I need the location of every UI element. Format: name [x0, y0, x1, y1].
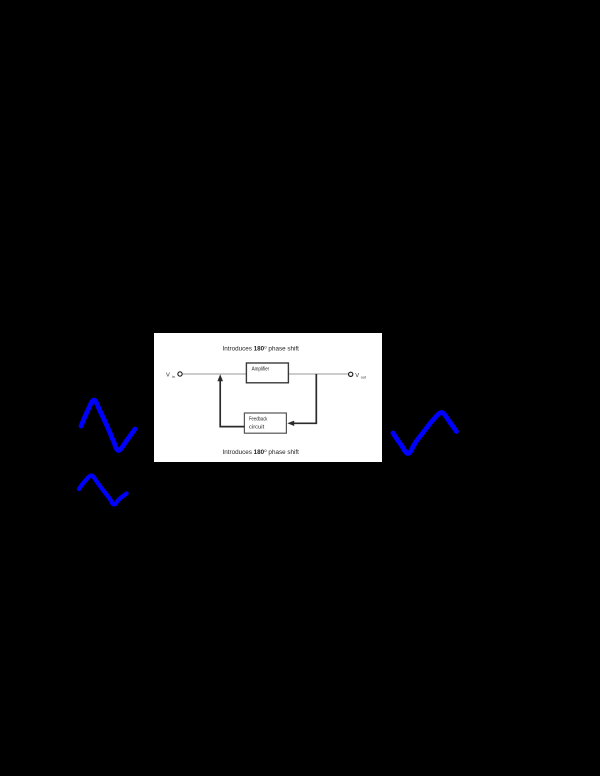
- label: bottom caption "Introduces 180° phase shift": [223, 448, 300, 456]
- svg-text:out: out: [361, 375, 366, 379]
- block feedback circuit box: [244, 413, 286, 433]
- arrowhead into feedback box right side: [287, 421, 294, 426]
- block amplifier box: [246, 363, 288, 383]
- arrowhead up into input wire junction: [217, 374, 223, 381]
- white diagram panel: [154, 333, 382, 462]
- svg-text:Feedback: Feedback: [249, 417, 268, 423]
- svg-text:Introduces 180o phase shift: Introduces 180o phase shift: [223, 448, 300, 456]
- svg-text:Amplifier: Amplifier: [252, 366, 270, 372]
- svg-text:circuit: circuit: [249, 424, 265, 430]
- input sine wave (large, left of panel): [81, 400, 135, 451]
- node Vout terminal circle: [349, 372, 353, 376]
- svg-text:V: V: [355, 373, 359, 379]
- output sine wave (right of panel, 180° phase shifted): [393, 413, 456, 454]
- label: top caption "Introduces 180° phase shift": [223, 345, 300, 353]
- wire feedback tap: junction on output wire, down then left to feedback box input: [294, 374, 317, 423]
- svg-text:V: V: [166, 373, 170, 379]
- svg-text:Introduces 180o phase shift: Introduces 180o phase shift: [223, 345, 300, 353]
- input sine wave (small, lower left): [79, 476, 127, 505]
- node Vout label: [355, 373, 366, 379]
- label Feedback circuit: [249, 417, 268, 431]
- wire amplifier output to Vout: [288, 373, 348, 375]
- node Vin label: [166, 373, 175, 379]
- wire Vin to amplifier input: [183, 373, 247, 375]
- svg-text:in: in: [172, 375, 175, 379]
- node Vin terminal circle: [178, 372, 182, 376]
- wire feedback box output: left then up to input wire: [220, 380, 244, 427]
